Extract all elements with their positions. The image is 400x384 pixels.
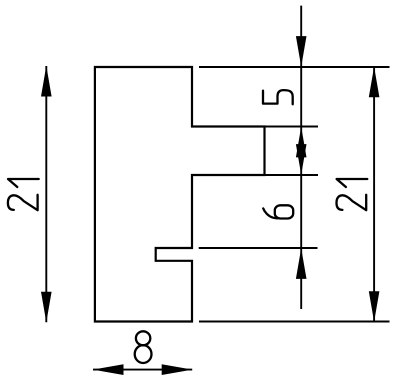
arrowhead 6-dim bottom (points up, tip on y=248) (296, 248, 307, 279)
arrowhead right-21 down (369, 291, 380, 322)
dim line right 21 (373, 67, 375, 322)
digit 1 of right 21 (337, 179, 368, 187)
arrowhead 6-dim top (points down, tip on y=175) (296, 144, 307, 175)
digit 5 (263, 90, 293, 104)
extension line top y=67 (199, 66, 390, 68)
arrowhead 8-dim right (162, 364, 193, 375)
digit 2 of left 21 (8, 195, 38, 210)
extension line y=248 (199, 247, 318, 249)
digit 6 (263, 205, 293, 218)
part outline (95, 67, 265, 322)
digit 2 of right 21 (337, 195, 367, 210)
arrowhead 5-dim top (points down, tip on y=67) (296, 36, 307, 67)
arrowhead right-21 up (369, 67, 380, 98)
dim line 5/6 vertical (300, 6, 302, 309)
arrowhead left-21 up (41, 66, 52, 97)
extension line y=175 (265, 174, 319, 176)
arrowhead left-21 down (41, 292, 52, 323)
digit 1 of left 21 (8, 179, 39, 187)
dim line left 21 (45, 66, 47, 322)
extension line y=126.5 (265, 126, 319, 128)
digit 8 (135, 331, 152, 363)
arrowhead 5-dim bottom (points up, tip on y=126.5) (296, 127, 307, 158)
extension line bottom y=321.5 (199, 321, 390, 323)
arrowhead 8-dim left (93, 364, 124, 375)
dim line 8 (93, 369, 192, 371)
